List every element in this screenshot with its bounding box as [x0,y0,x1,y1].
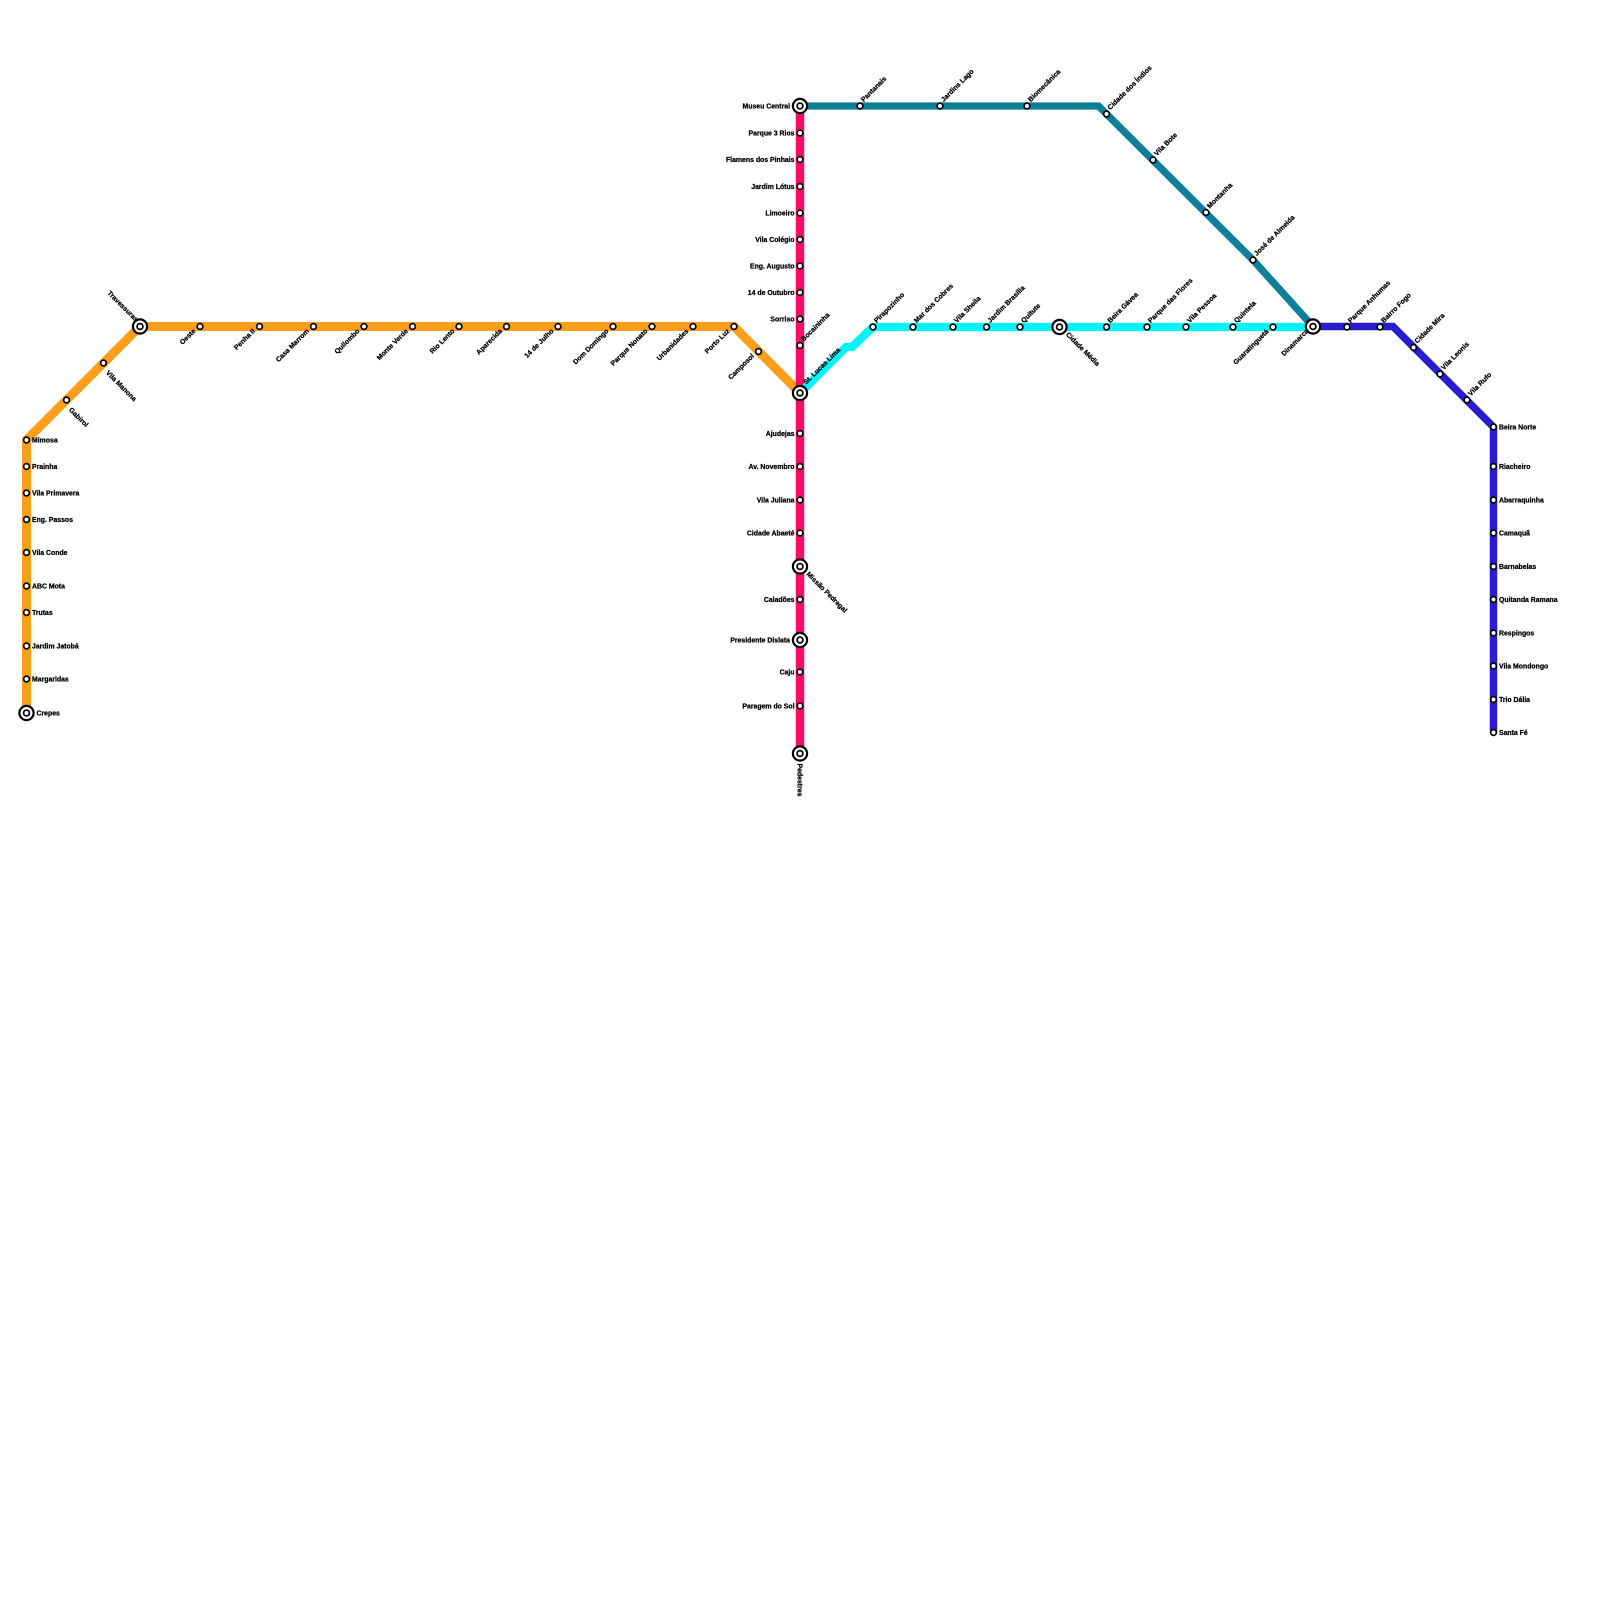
station Penha II [233,324,262,352]
svg-text:Vila Colégio: Vila Colégio [755,237,794,244]
station Limoeiro [765,210,802,217]
interchange Museu Central [743,99,808,113]
svg-text:ABC Mota: ABC Mota [32,583,65,590]
station Cidade Abaeté [747,530,803,537]
svg-text:Respingos: Respingos [1499,630,1534,637]
station Riacheiro [1491,464,1531,471]
svg-text:Av. Novembro: Av. Novembro [749,464,795,471]
svg-text:Vila Mondongo: Vila Mondongo [1499,663,1548,670]
svg-text:Vila Juliana: Vila Juliana [757,497,795,504]
station Ajudejas [766,431,803,438]
station Eng. Passos [24,517,73,524]
station Beira Gávea [1104,291,1140,329]
station Caladões [764,597,803,604]
svg-text:Santa Fé: Santa Fé [1499,730,1528,737]
station Jardins Lago [937,68,975,109]
station 14 de Outubro [748,290,803,297]
station Jardim Brasília [984,285,1027,330]
station Paragem do Sol [742,703,802,710]
interchange Cidade Média [1052,320,1100,368]
station Av. Novembro [749,464,803,471]
svg-text:Sorriso: Sorriso [770,316,794,323]
station Vila Rufo [1464,372,1493,403]
station Quilombo [334,324,367,356]
station Eng. Augusto [750,263,803,270]
station Margaridas [24,676,69,683]
station Trio Dália [1491,697,1531,704]
station Abarraquinha [1491,497,1544,504]
station Vila Bote [1150,132,1179,163]
station Vila Sheila [950,295,982,330]
station Vila Colégio [755,237,803,244]
svg-text:Flamens dos Pinhais: Flamens dos Pinhais [726,157,795,164]
station Monte Verde [376,324,415,362]
station Pirapozinho [870,292,906,330]
svg-text:Camaquã: Camaquã [1499,530,1530,537]
svg-text:Museu Central: Museu Central [743,103,791,110]
station Mimosa [24,437,58,444]
svg-text:Vila Primavera: Vila Primavera [32,490,80,497]
station Parque 3 Rios [749,130,803,137]
blue line [1313,327,1494,733]
svg-text:Parque 3 Rios: Parque 3 Rios [749,130,795,137]
interchange Travessuras [106,290,147,334]
svg-text:Margaridas: Margaridas [32,676,69,683]
station Oeste [179,324,203,347]
station Porto Luz [704,324,737,356]
station Cidade Mira [1411,312,1447,350]
svg-text:Trio Dália: Trio Dália [1499,697,1530,704]
svg-text:Caju: Caju [780,669,795,676]
svg-text:Abarraquinha: Abarraquinha [1499,497,1544,504]
station Quitute [1017,302,1042,329]
station Vila Mondongo [1491,663,1549,670]
cyan line [800,327,1313,393]
svg-text:Caladões: Caladões [764,597,795,604]
svg-text:Limoeiro: Limoeiro [765,210,794,217]
station Vila Juliana [757,497,803,504]
svg-text:Eng. Augusto: Eng. Augusto [750,263,795,270]
interchange Missão Pedregal [793,559,848,614]
svg-text:Crepes: Crepes [37,710,61,717]
svg-text:Beira Norte: Beira Norte [1499,424,1536,431]
svg-text:Mimosa: Mimosa [32,437,58,444]
station Caju [780,669,803,676]
svg-text:Prainha: Prainha [32,464,57,471]
station Parque Nonato [610,324,655,368]
station Bairro Fogo [1377,292,1413,330]
svg-text:Presidente Dislata: Presidente Dislata [730,637,790,644]
station Jardim Jatobá [24,643,79,650]
station Trutas [24,610,53,617]
svg-text:Eng. Passos: Eng. Passos [32,517,73,524]
svg-text:Paragem do Sol: Paragem do Sol [742,703,794,710]
station Vila Conde [24,550,68,557]
station Casa Marrom [275,324,316,364]
station Respingos [1491,630,1535,637]
station ABC Mota [24,583,65,590]
pink line [796,106,805,754]
station Urbanidades [656,324,696,363]
station Beira Norte [1491,424,1537,431]
station Vila Manona [101,360,138,403]
station Pantanais [857,76,888,109]
station Montanha [1203,182,1234,215]
svg-text:Vila Conde: Vila Conde [32,550,68,557]
interchange Crepes [19,706,60,720]
station Rio Lento [429,324,462,356]
station Quitanda Ramana [1491,597,1558,604]
station Vila Primavera [24,490,80,497]
station Jardim Lótus [751,184,803,191]
station Camposol [727,349,761,382]
station Camaquã [1491,530,1531,537]
teal line [800,106,1313,327]
station Parque das Flores [1144,277,1194,330]
interchange Pedestres [793,746,807,796]
station Biomecânica [1024,68,1062,108]
orange line [27,327,801,714]
station Gabirol [64,397,90,429]
svg-text:Jardim Lótus: Jardim Lótus [751,184,794,191]
station Dom Domingo [572,324,616,367]
svg-text:Riacheiro: Riacheiro [1499,464,1530,471]
svg-text:Cidade Abaeté: Cidade Abaeté [747,530,795,537]
station Vila Pessoa [1183,293,1218,330]
station Parque Anhumas [1344,280,1392,330]
svg-text:Jardim Jatobá: Jardim Jatobá [32,643,79,650]
station Mar dos Cobres [910,283,955,330]
svg-text:Barnabelas: Barnabelas [1499,564,1536,571]
station Santa Fé [1491,730,1528,737]
svg-text:Trutas: Trutas [32,610,53,617]
station Quintela [1230,300,1258,330]
interchange St. Lucas Lima [793,347,842,400]
station Guaratinguetá [1232,324,1275,366]
station Barnabelas [1491,564,1537,571]
station Aparecida [475,324,509,357]
interchange Dinamarca [1281,319,1321,357]
station Sorriso [770,316,802,323]
station Flamens dos Pinhais [726,157,803,164]
svg-text:Pedestres: Pedestres [795,764,802,797]
station Cidade dos Índios [1104,63,1154,117]
station Vila Leonis [1437,341,1471,377]
station 14 de Julho [524,324,561,360]
svg-text:14 de Outubro: 14 de Outubro [748,290,795,297]
svg-text:Quitanda Ramana: Quitanda Ramana [1499,597,1558,604]
station José de Almeida [1250,214,1296,263]
station Bocaininha [797,312,831,349]
station Prainha [24,464,58,471]
interchange Presidente Dislata [730,633,807,647]
svg-text:Ajudejas: Ajudejas [766,431,795,438]
